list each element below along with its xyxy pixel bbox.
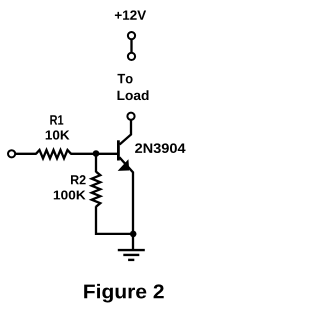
wire node A down to R2 xyxy=(95,154,97,172)
resistor R2 100K (zigzag) xyxy=(92,172,101,207)
terminal input (left circle) xyxy=(8,150,15,157)
wire R2 bottom to ground rail xyxy=(96,206,133,234)
caption Figure 2 xyxy=(84,284,164,303)
junction node A (base divider node) xyxy=(93,150,100,157)
wire node B to ground xyxy=(132,234,134,250)
junction node B (emitter to ground) xyxy=(130,231,137,238)
ground bar 1 xyxy=(118,249,145,251)
resistor R1 10K (zigzag) xyxy=(36,150,71,158)
wire between +12V terminal pair xyxy=(130,40,132,53)
label R2 xyxy=(71,175,86,184)
transistor Q1 base bar xyxy=(117,140,120,160)
ground bar 2 xyxy=(123,254,139,256)
wire collector terminal to Q1 collector xyxy=(120,120,131,144)
node label To xyxy=(118,74,133,84)
wire node A to Q1 base xyxy=(96,153,117,155)
net label +12V xyxy=(115,10,146,19)
terminal To-Load (collector output circle) xyxy=(127,113,134,120)
wire Q1 emitter (diagonal and down to node B) xyxy=(119,157,133,234)
value label 10K xyxy=(46,130,70,139)
terminal +12V (upper circle) xyxy=(128,32,135,39)
node label Load xyxy=(118,90,149,100)
ground bar 3 xyxy=(128,259,134,261)
label R1 xyxy=(50,115,63,124)
terminal +12V pair (lower circle) xyxy=(128,53,135,60)
label 2N3904 xyxy=(135,143,185,153)
value label 100K xyxy=(54,190,86,199)
wire R1 to node A xyxy=(71,153,97,155)
transistor Q1 emitter arrowhead xyxy=(119,160,129,170)
wire input terminal to R1 xyxy=(15,153,36,155)
